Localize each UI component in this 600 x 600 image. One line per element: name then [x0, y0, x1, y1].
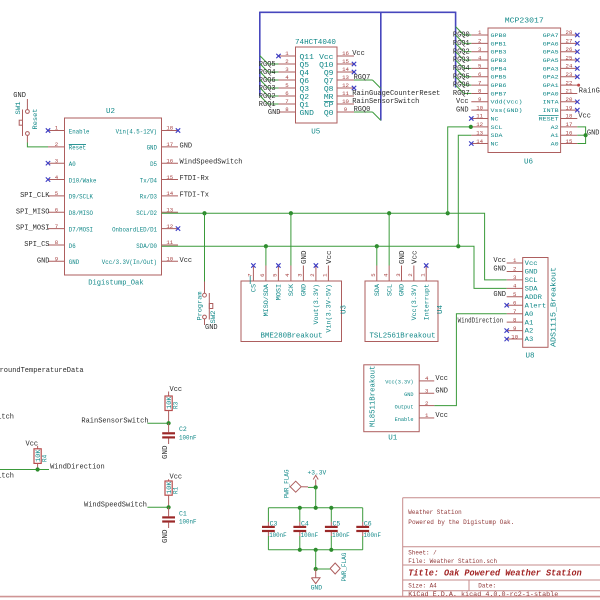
- U3 pin 1 Vin(3.3V-5V): [322, 266, 333, 333]
- svg-text:GPA7: GPA7: [543, 32, 559, 39]
- svg-text:GPB3: GPB3: [491, 49, 507, 56]
- svg-text:ML8511Breakout: ML8511Breakout: [370, 366, 378, 427]
- svg-text:16: 16: [342, 50, 349, 57]
- U2 pin 16 D5: [150, 157, 178, 168]
- svg-text:INTA: INTA: [543, 99, 560, 106]
- bus entry RGQ0: [373, 112, 381, 120]
- svg-text:Vcc: Vcc: [326, 251, 334, 265]
- svg-text:U2: U2: [106, 108, 115, 116]
- svg-text:RESET: RESET: [539, 115, 560, 122]
- svg-text:7: 7: [513, 308, 516, 315]
- wire RGQ6 (U6 pin 7): [464, 84, 471, 86]
- svg-text:U8: U8: [525, 353, 534, 361]
- svg-text:Vcc: Vcc: [170, 386, 183, 394]
- svg-text:GND: GND: [180, 142, 193, 150]
- svg-text:Vdd(Vcc): Vdd(Vcc): [491, 99, 523, 106]
- svg-text:4: 4: [284, 273, 291, 277]
- svg-text:SDA: SDA: [374, 284, 381, 297]
- svg-text:22: 22: [566, 79, 573, 86]
- U2 pin 13 SCL/D2: [136, 206, 178, 217]
- bus entry RGQ3: [260, 80, 268, 88]
- bus entry RGQ1: [456, 35, 464, 43]
- svg-text:Vcc: Vcc: [525, 260, 538, 267]
- U2 pin 5 D9/SCLK: [48, 190, 93, 201]
- svg-text:GPB6: GPB6: [491, 82, 507, 89]
- svg-text:15: 15: [166, 174, 173, 181]
- wire RGQ0 (U5 pin 9): [354, 111, 373, 113]
- svg-text:SPI_MISO: SPI_MISO: [16, 208, 50, 216]
- svg-text:SDA: SDA: [491, 132, 504, 139]
- wire RGQ2 (U6 pin 3): [464, 51, 471, 53]
- svg-text:10: 10: [511, 333, 518, 340]
- U3 pin 3 GND: [297, 266, 308, 297]
- svg-text:Vcc: Vcc: [319, 54, 333, 62]
- svg-text:GND: GND: [493, 266, 506, 274]
- U6 pin 2 GPB1: [471, 38, 507, 48]
- svg-text:D8/MISO: D8/MISO: [69, 210, 93, 217]
- U6 pin 4 GPB3: [471, 54, 506, 64]
- svg-text:Vcc: Vcc: [435, 375, 448, 383]
- U6 pin 18 RESET: [539, 113, 578, 123]
- svg-text:GPA5: GPA5: [543, 49, 559, 56]
- svg-text:D10/Wake: D10/Wake: [69, 177, 97, 184]
- svg-text:12: 12: [342, 82, 349, 89]
- U2 pin 4 D10/Wake: [46, 174, 97, 185]
- svg-text:13: 13: [342, 74, 349, 81]
- svg-text:GND: GND: [13, 92, 26, 100]
- U6 pin 9 Vdd(Vcc): [471, 96, 522, 106]
- svg-text:SCL: SCL: [386, 284, 393, 297]
- svg-text:GND: GND: [205, 324, 218, 332]
- svg-text:INTB: INTB: [543, 107, 560, 114]
- junction SDA / U3: [264, 244, 268, 248]
- svg-text:1: 1: [55, 125, 59, 132]
- wire SW1 to U2 Reset pin: [27, 143, 48, 147]
- wire U6 pin13 SDA branch: [458, 135, 471, 246]
- svg-text:TSL2561Breakout: TSL2561Breakout: [370, 333, 436, 341]
- svg-text:Vcc(3.3V): Vcc(3.3V): [411, 284, 418, 320]
- wire RGQ2 (U5 pin 6): [268, 95, 278, 97]
- svg-text:GND: GND: [435, 387, 448, 395]
- svg-text:8: 8: [55, 239, 59, 246]
- junction R3/C2/RainSensorSwitch: [167, 421, 171, 425]
- wire RGQ3 (U5 pin 5): [268, 87, 278, 89]
- svg-text:Reset: Reset: [32, 109, 39, 130]
- U6 pin 5 GPB4: [471, 63, 507, 73]
- junction cap bank top rail: [329, 506, 333, 510]
- U3 pin 6 MISO/SDA: [259, 266, 270, 317]
- svg-text:5: 5: [285, 82, 289, 89]
- junction cap bank bottom rail: [329, 548, 333, 552]
- wire U4 SCL to SCL net: [388, 213, 390, 265]
- U5 pin 2 Q5: [279, 58, 310, 70]
- svg-text:ADS1115_Breakout: ADS1115_Breakout: [550, 267, 558, 347]
- svg-text:RGQ4: RGQ4: [453, 65, 470, 73]
- svg-text:4: 4: [55, 174, 59, 181]
- bus entry RGQ2: [456, 43, 464, 51]
- wire U4 SDA to SDA net: [376, 246, 378, 265]
- svg-text:A2: A2: [525, 328, 534, 335]
- svg-text:C2: C2: [179, 426, 187, 433]
- capacitor C1 100nF: [162, 507, 175, 528]
- svg-text:GND: GND: [268, 109, 281, 117]
- U6 pin 10 Vss(GND): [471, 104, 522, 114]
- svg-text:U1: U1: [388, 435, 398, 443]
- svg-text:21: 21: [566, 88, 573, 95]
- svg-text:Vcc: Vcc: [456, 98, 469, 106]
- svg-text:GND: GND: [493, 291, 506, 299]
- svg-text:PWR_FLAG: PWR_FLAG: [341, 552, 348, 581]
- wire dangling (U6 pin 22): [576, 84, 579, 86]
- svg-text:13: 13: [166, 206, 173, 213]
- svg-text:RainSensorSwitch: RainSensorSwitch: [352, 98, 419, 106]
- svg-text:PWR_FLAG: PWR_FLAG: [283, 469, 290, 498]
- U2 pin 2 Reset: [48, 141, 86, 152]
- U5 pin 13 Q7: [324, 74, 354, 86]
- svg-text:R4: R4: [42, 454, 49, 462]
- svg-text:CS: CS: [251, 284, 258, 293]
- dangling end dot (U6 pin 22): [577, 84, 580, 87]
- U6 pin 6 GPB5: [471, 71, 506, 81]
- svg-text:9: 9: [344, 106, 348, 113]
- svg-text:7: 7: [55, 223, 58, 230]
- U1 pin 3 GND: [404, 387, 434, 398]
- junction R1/C1/WindSpeedSwitch: [167, 505, 171, 509]
- svg-text:A3: A3: [525, 336, 534, 343]
- bus entry RGQ6: [456, 77, 464, 85]
- svg-text:Q9: Q9: [324, 70, 334, 78]
- bus entry RGQ4: [260, 64, 268, 72]
- junction SDA / U6 branch: [456, 244, 460, 248]
- svg-text:12: 12: [166, 223, 173, 230]
- wire net WindDirection (U8 pin7 to U1 Output): [434, 314, 507, 406]
- svg-text:Q8: Q8: [324, 86, 334, 94]
- wire RGQ5 (U6 pin 6): [464, 76, 471, 78]
- svg-text:4: 4: [513, 283, 517, 290]
- IC U2 Digistump_Oak body: [65, 118, 162, 275]
- svg-text:Alert: Alert: [525, 302, 547, 309]
- svg-text:8: 8: [513, 316, 517, 323]
- svg-text:3: 3: [478, 46, 482, 53]
- svg-text:MISO/SDA: MISO/SDA: [263, 284, 270, 317]
- svg-text:C4: C4: [301, 520, 309, 527]
- svg-text:1: 1: [425, 412, 429, 419]
- svg-text:5: 5: [370, 273, 377, 277]
- svg-text:1: 1: [478, 29, 482, 36]
- svg-text:1: 1: [420, 273, 427, 277]
- svg-text:RainSensorSwitch: RainSensorSwitch: [81, 417, 148, 425]
- wire +3.3V down to cap rail: [315, 487, 317, 507]
- U8 pin 9 A2: [505, 325, 534, 335]
- svg-text:A1: A1: [551, 132, 560, 139]
- svg-text:Program: Program: [196, 291, 203, 320]
- U8 pin 4 SDA: [507, 283, 538, 293]
- svg-text:GND: GND: [311, 585, 323, 592]
- svg-text:D9/SCLK: D9/SCLK: [69, 194, 93, 201]
- svg-text:RainGuageCounterReset: RainGuageCounterReset: [579, 88, 600, 96]
- capacitor C2 100nF: [162, 423, 175, 444]
- U6 pin 25 GPA5: [543, 54, 580, 64]
- junction SCL / U4 SCL: [387, 211, 391, 215]
- svg-text:74HCT4040: 74HCT4040: [295, 39, 336, 47]
- svg-text:RGQ7: RGQ7: [354, 74, 371, 82]
- U6 pin 21 GPA0: [543, 88, 578, 98]
- svg-text:GND: GND: [456, 106, 469, 114]
- U6 pin 8 GPB7: [471, 88, 506, 98]
- wire RGQ6 (U5 pin 4): [268, 79, 278, 81]
- svg-text:GPA2: GPA2: [543, 74, 559, 81]
- svg-text:GND: GND: [37, 257, 50, 265]
- svg-text:6: 6: [513, 299, 517, 306]
- svg-text:5: 5: [55, 190, 59, 197]
- U5 pin 8 GND: [279, 106, 314, 118]
- svg-text:Vcc: Vcc: [180, 257, 193, 265]
- svg-text:CP: CP: [324, 102, 334, 110]
- U2 pin 12 OnboardLED/D1: [112, 223, 180, 234]
- U6 pin 3 GPB3: [471, 46, 506, 56]
- U6 pin 11 NC: [469, 113, 499, 123]
- bus entry RGQ7: [456, 85, 464, 93]
- svg-text:Rx/D3: Rx/D3: [140, 194, 157, 201]
- U5 pin 12 Q8: [324, 82, 356, 94]
- U6 pin 16 A1: [551, 129, 578, 139]
- svg-text:Vcc: Vcc: [26, 440, 39, 448]
- U2 pin 18 Vin(4.5-12V): [116, 125, 181, 136]
- wire net SDA (U2 pin11 to U8 pin4): [162, 246, 507, 288]
- svg-text:26: 26: [566, 46, 573, 53]
- wire RainSensorSwitch to R3/C2: [147, 422, 168, 424]
- svg-text:Vcc(3.3V): Vcc(3.3V): [385, 379, 413, 386]
- svg-text:GPB5: GPB5: [491, 74, 507, 81]
- svg-text:4: 4: [382, 273, 389, 277]
- wire U3 MISO/SDA to SDA net: [265, 246, 267, 265]
- capacitor C3 100nF: [262, 508, 275, 550]
- svg-text:11: 11: [166, 239, 173, 246]
- U4 pin 5 SDA: [370, 266, 381, 297]
- wire RGQ7 (U6 pin 8): [464, 92, 471, 94]
- svg-text:RainGuageCounterReset: RainGuageCounterReset: [352, 90, 440, 98]
- U6 pin 22 GPA1: [543, 79, 578, 89]
- svg-text:16: 16: [566, 129, 573, 136]
- svg-text:4: 4: [478, 54, 482, 61]
- U2 pin 17 GND: [147, 141, 178, 152]
- power symbol +3.3V: [313, 475, 318, 487]
- svg-text:Vcc: Vcc: [435, 412, 448, 420]
- junction R4/WindDirection: [36, 467, 40, 471]
- wire cap bank bottom rail: [268, 549, 362, 551]
- wire SCL junction down to SW2: [204, 213, 206, 281]
- svg-text:RGQ5: RGQ5: [453, 73, 470, 81]
- svg-text:100nF: 100nF: [179, 435, 197, 442]
- U2 pin 8 D6: [48, 239, 76, 250]
- wire U3 SCK to SCL net: [290, 213, 292, 265]
- svg-text:WindDirection: WindDirection: [50, 464, 105, 472]
- U6 pin 27 GPA6: [543, 38, 580, 48]
- svg-text:6: 6: [259, 273, 266, 277]
- svg-text:100nF: 100nF: [179, 519, 197, 526]
- wire WindSpeedSwitch to R1/C1: [147, 506, 168, 508]
- svg-text:Q0: Q0: [324, 110, 334, 118]
- U8 pin 6 Alert: [505, 299, 547, 309]
- junction cap bank bottom rail: [298, 548, 302, 552]
- svg-text:15: 15: [566, 138, 573, 145]
- U2 pin 6 D8/MISO: [48, 206, 93, 217]
- svg-text:Q10: Q10: [319, 62, 333, 70]
- U6 pin 1 GPB0: [471, 29, 507, 39]
- svg-text:RGQ1: RGQ1: [453, 40, 470, 48]
- svg-text:SPI_CS: SPI_CS: [24, 241, 49, 249]
- svg-text:A2: A2: [551, 124, 559, 131]
- svg-text:Q7: Q7: [324, 78, 334, 86]
- svg-text:4: 4: [285, 74, 289, 81]
- svg-text:6: 6: [55, 206, 59, 213]
- U2 pin 9 GND: [48, 256, 79, 267]
- bus entry RGQ2: [260, 88, 268, 96]
- svg-text:5: 5: [478, 63, 482, 70]
- svg-text:Date:: Date:: [478, 583, 496, 590]
- junction U6 pin12 wire: [469, 125, 473, 129]
- U2 pin 1 Enable: [46, 125, 90, 136]
- svg-text:RGQ3: RGQ3: [453, 57, 470, 65]
- U2 pin 7 D7/MOSI: [48, 223, 93, 234]
- svg-text:8: 8: [478, 88, 482, 95]
- svg-text:Enable: Enable: [395, 416, 414, 423]
- svg-text:8: 8: [285, 106, 289, 113]
- svg-text:C3: C3: [270, 520, 278, 527]
- svg-text:5: 5: [513, 291, 517, 298]
- svg-text:18: 18: [566, 113, 573, 120]
- svg-text:6: 6: [285, 90, 289, 97]
- IC U8 ADS1115_Breakout body: [523, 258, 548, 348]
- svg-text:1: 1: [513, 257, 517, 264]
- svg-text:2: 2: [309, 273, 316, 277]
- svg-text:15: 15: [342, 58, 349, 65]
- IC U3 BME280Breakout body: [241, 281, 342, 342]
- U5 pin 6 Q2: [279, 90, 310, 102]
- svg-text:D5: D5: [150, 161, 157, 168]
- svg-text:Vout(3.3V): Vout(3.3V): [313, 284, 320, 325]
- svg-text:GPB4: GPB4: [491, 65, 508, 72]
- svg-text:10: 10: [342, 98, 349, 105]
- junction SCL / SW2: [202, 211, 206, 215]
- svg-text:itch: itch: [0, 414, 14, 422]
- U4 pin 4 SCL: [382, 266, 393, 297]
- wire RGQ4 (U5 pin 3): [268, 71, 278, 73]
- svg-text:3: 3: [297, 273, 304, 277]
- svg-text:GPA1: GPA1: [543, 82, 560, 89]
- svg-text:U4: U4: [437, 304, 445, 314]
- svg-text:2: 2: [478, 38, 482, 45]
- U8 pin 10 A3: [505, 333, 534, 343]
- U6 pin 23 GPA2: [543, 71, 580, 81]
- U8 pin 5 ADDR: [507, 291, 542, 301]
- svg-text:Digistump_Oak: Digistump_Oak: [88, 280, 144, 288]
- svg-text:16: 16: [166, 157, 173, 164]
- bus entry RGQ5: [456, 68, 464, 76]
- svg-text:GND: GND: [301, 251, 309, 265]
- U2 pin 11 SDA/D0: [136, 239, 178, 250]
- svg-text:U6: U6: [524, 159, 534, 167]
- svg-text:KiCad E.D.A. kicad 4.0.0-rc2-: KiCad E.D.A. kicad 4.0.0-rc2-1-stable: [408, 591, 558, 598]
- junction U6 pin16/GND: [584, 133, 588, 137]
- svg-text:U3: U3: [341, 304, 349, 314]
- svg-text:A0: A0: [525, 311, 534, 318]
- U6 pin 14 NC: [469, 138, 499, 148]
- svg-text:GND: GND: [399, 284, 406, 297]
- svg-text:GPB7: GPB7: [491, 90, 507, 97]
- svg-text:28: 28: [566, 29, 573, 36]
- svg-text:RGQ0: RGQ0: [453, 32, 470, 40]
- U5 pin 7 Q1: [279, 98, 310, 110]
- svg-text:Interrupt: Interrupt: [423, 284, 430, 320]
- svg-text:ADDR: ADDR: [525, 294, 542, 301]
- svg-text:WindSpeedSwitch: WindSpeedSwitch: [84, 502, 147, 510]
- svg-text:SW1: SW1: [15, 101, 22, 114]
- svg-text:GND: GND: [404, 391, 414, 398]
- U1 pin 4 Vcc(3.3V): [385, 375, 434, 386]
- svg-text:SPI_MOSI: SPI_MOSI: [16, 225, 50, 233]
- wire RGQ7 (U5 pin 13): [354, 79, 373, 81]
- U6 pin 13 SDA: [471, 129, 503, 139]
- svg-text:3: 3: [395, 273, 402, 277]
- U1 pin 1 Enable: [395, 412, 435, 423]
- bus RGQ left vertical segment (to U5 left pins): [259, 12, 261, 96]
- svg-text:24: 24: [566, 63, 573, 70]
- svg-text:C6: C6: [364, 520, 372, 527]
- resistor R3 10K: [165, 392, 172, 424]
- U5 pin 10 CP: [324, 98, 354, 110]
- svg-text:Q3: Q3: [300, 86, 310, 94]
- svg-text:GPA6: GPA6: [543, 40, 559, 47]
- svg-text:GPA0: GPA0: [543, 90, 560, 97]
- svg-text:RGQ7: RGQ7: [453, 90, 470, 98]
- svg-text:Reset: Reset: [69, 145, 86, 152]
- svg-text:OnboardLED/D1: OnboardLED/D1: [112, 226, 157, 233]
- wire cap bank top rail: [268, 507, 362, 509]
- U6 pin 20 INTA: [543, 96, 580, 106]
- svg-text:3: 3: [55, 157, 59, 164]
- svg-text:SCK: SCK: [288, 284, 295, 297]
- svg-text:File: Weather Station.sch: File: Weather Station.sch: [408, 558, 497, 565]
- svg-text:GPB3: GPB3: [491, 57, 507, 64]
- svg-text:23: 23: [566, 71, 573, 78]
- U8 pin 1 Vcc: [507, 257, 538, 267]
- svg-text:7: 7: [478, 79, 481, 86]
- svg-text:itch: itch: [0, 472, 14, 480]
- svg-text:MOSI: MOSI: [276, 284, 283, 300]
- svg-text:D7/MOSI: D7/MOSI: [69, 226, 93, 233]
- svg-text:R3: R3: [173, 401, 180, 409]
- U5 pin 15 Q10: [319, 58, 356, 70]
- IC U6 MCP23017 body: [488, 28, 561, 153]
- U1 pin 2 Output: [395, 400, 435, 411]
- sheet border bottom line: [0, 596, 600, 598]
- junction GND/PWR_FLAG (bottom): [314, 567, 318, 571]
- junction SCL / U3 SCK: [289, 211, 293, 215]
- svg-text:RGQ1: RGQ1: [259, 101, 276, 109]
- U6 pin 17 A2: [551, 121, 578, 131]
- svg-text:3: 3: [425, 387, 429, 394]
- svg-text:SW2: SW2: [210, 310, 217, 323]
- U2 pin 15 Tx/D4: [140, 174, 178, 185]
- wire RGQ1 (U5 pin 7): [268, 103, 278, 105]
- svg-text:RGQ6: RGQ6: [453, 82, 470, 90]
- svg-text:12: 12: [476, 121, 483, 128]
- wire GND loop U6 pins 15-17: [577, 127, 585, 144]
- U8 pin 8 A1: [507, 316, 534, 326]
- svg-text:14: 14: [476, 138, 483, 145]
- IC U1 ML8511Breakout body: [364, 365, 419, 432]
